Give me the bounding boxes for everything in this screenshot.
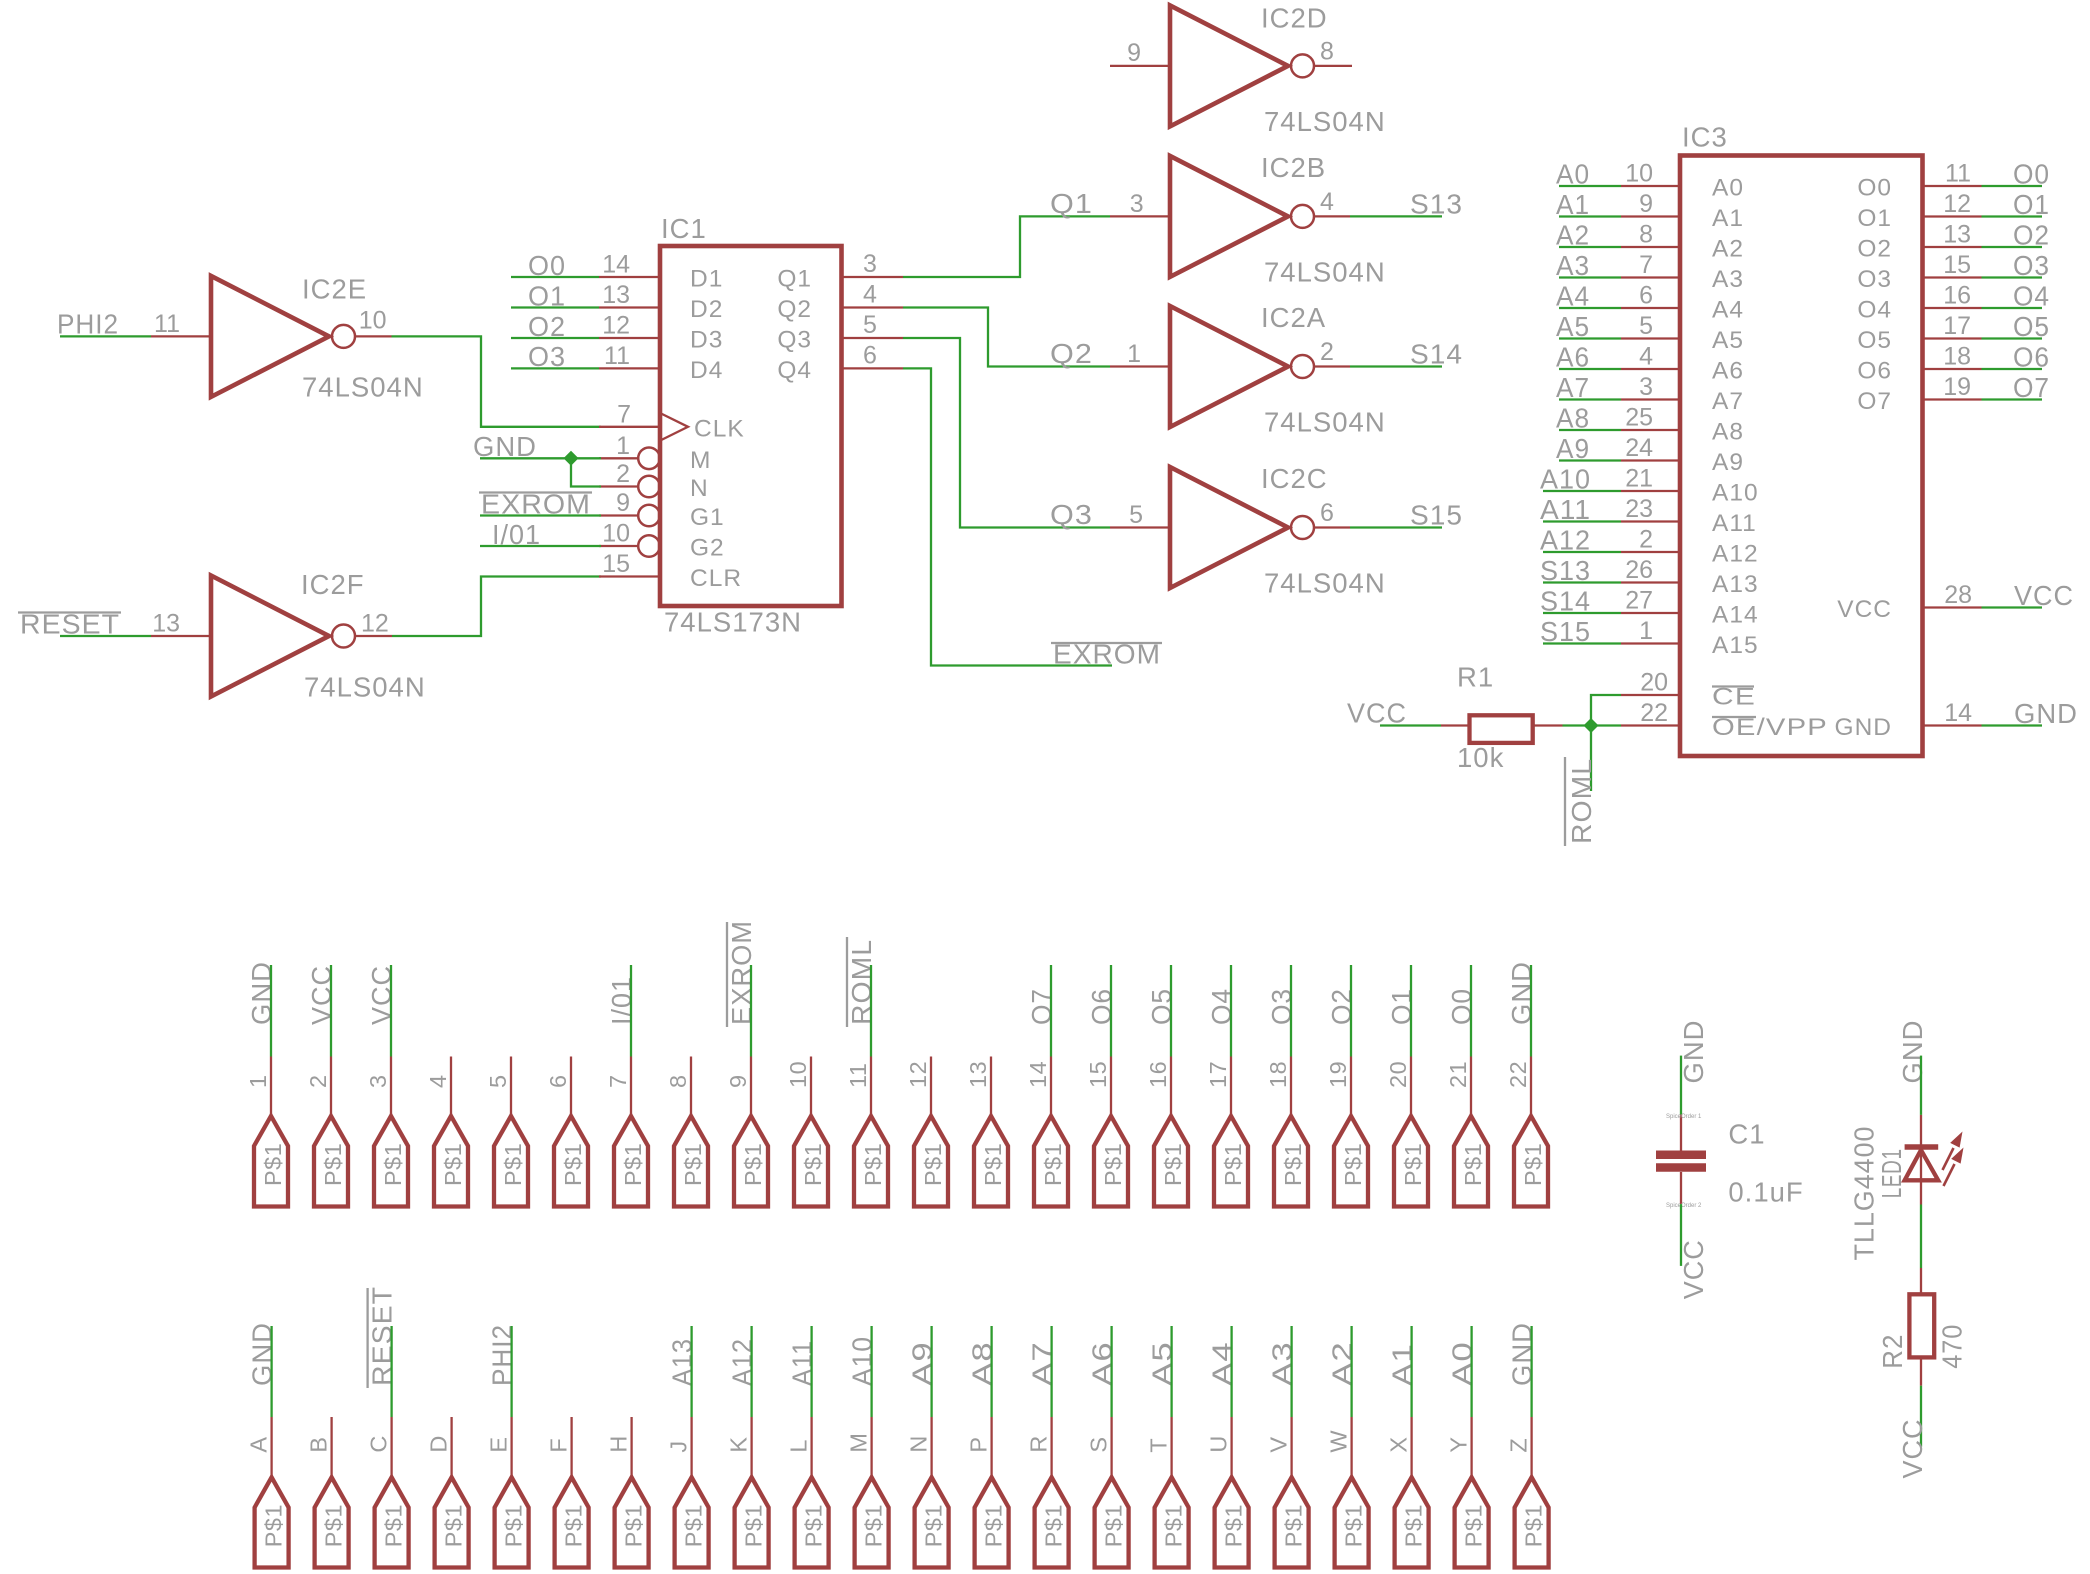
wire to connector pin U [1230, 1326, 1232, 1417]
pin stub connector pin 1 [270, 1057, 272, 1117]
inverter IC2A body [1170, 306, 1288, 427]
svg-text:12: 12 [905, 1061, 931, 1088]
wire IC3 O6 to label [1982, 368, 2043, 370]
svg-text:TLLG4400: TLLG4400 [1849, 1126, 1880, 1261]
svg-text:11: 11 [845, 1063, 871, 1088]
svg-text:VCC: VCC [2014, 580, 2074, 611]
pin stub connector pin 10 [810, 1057, 812, 1117]
connector pad pin 15 [1094, 1116, 1128, 1207]
inverter IC2C body [1170, 467, 1288, 588]
connector pad pin X [1395, 1477, 1429, 1567]
svg-text:F: F [546, 1438, 572, 1453]
pin stub IC3 O0 [1923, 185, 1982, 187]
svg-text:2: 2 [1639, 526, 1653, 554]
inverter IC2F body [211, 576, 329, 697]
wire to connector pin 22 [1530, 965, 1532, 1057]
svg-text:14: 14 [1025, 1061, 1051, 1088]
svg-text:P$1: P$1 [1041, 1504, 1067, 1547]
svg-text:A0: A0 [1712, 175, 1744, 202]
svg-text:P$1: P$1 [860, 1143, 886, 1186]
svg-text:P$1: P$1 [1221, 1504, 1247, 1547]
pin stub IC1 D3 [599, 337, 660, 339]
svg-text:O7: O7 [2013, 372, 2050, 403]
svg-text:3: 3 [1639, 373, 1653, 401]
svg-text:1: 1 [616, 432, 630, 460]
svg-text:G1: G1 [690, 504, 725, 531]
pin stub IC3 O6 [1923, 368, 1982, 370]
pin stub connector pin 11 [870, 1057, 872, 1117]
svg-text:O1: O1 [2013, 189, 2050, 220]
connector pad pin 9 [734, 1116, 768, 1207]
pin stub IC3 OE/VPP [1621, 724, 1680, 726]
svg-text:Q3: Q3 [1050, 499, 1093, 530]
svg-text:VCC: VCC [1347, 697, 1407, 728]
svg-text:2: 2 [305, 1074, 331, 1088]
svg-text:N: N [690, 475, 709, 502]
svg-text:A4: A4 [1712, 297, 1744, 324]
overline for ROML label (connector pin 11) [846, 937, 848, 1027]
pin stub IC3 pin 1 [1621, 642, 1680, 644]
pin stub connector pin D [450, 1417, 452, 1477]
svg-text:15: 15 [602, 550, 630, 578]
svg-text:6: 6 [1639, 282, 1653, 310]
svg-text:Q3: Q3 [777, 327, 812, 354]
inversion bubble IC1 G2 [638, 535, 660, 557]
svg-text:8: 8 [1639, 221, 1653, 249]
svg-text:P$1: P$1 [501, 1504, 527, 1547]
overline for EXROM label (from Q4) [1051, 642, 1162, 644]
svg-text:Q4: Q4 [777, 357, 812, 384]
svg-text:P$1: P$1 [1280, 1143, 1306, 1186]
LED1 wire through symbol [1920, 1150, 1922, 1180]
svg-text:VCC: VCC [1837, 596, 1892, 623]
inversion bubble IC1 G1 [638, 505, 660, 527]
pin stub connector pin 5 [510, 1057, 512, 1117]
svg-text:J: J [666, 1440, 692, 1452]
svg-text:A7: A7 [1712, 388, 1744, 415]
wire to connector pin T [1170, 1326, 1172, 1417]
capacitor C1 plates [1656, 1151, 1706, 1160]
connector pad pin W [1335, 1477, 1369, 1567]
wire IC1 Q2 to IC2A input [903, 308, 1110, 367]
svg-text:U: U [1206, 1435, 1232, 1452]
svg-text:GND: GND [246, 961, 277, 1025]
wire A5 to IC3 pin 5 [1559, 337, 1621, 339]
wire to connector pin N [930, 1326, 932, 1417]
svg-text:24: 24 [1625, 434, 1653, 462]
pin stub connector pin 20 [1410, 1057, 1412, 1117]
pin stub IC3 pin 26 [1621, 581, 1680, 583]
svg-text:22: 22 [1640, 699, 1668, 727]
connector pad pin U [1215, 1477, 1249, 1567]
overline for RESET label [18, 611, 121, 613]
pin stub connector pin 18 [1290, 1057, 1292, 1117]
wire IC3 O1 to label [1982, 215, 2043, 217]
svg-text:22: 22 [1505, 1061, 1531, 1088]
wire A6 to IC3 pin 4 [1559, 368, 1621, 370]
wire LED1 to R2 [1920, 1205, 1922, 1269]
wire I/01 to IC1 pin G2 [480, 545, 601, 547]
connector pad pin 10 [794, 1116, 828, 1207]
connector pad pin 5 [494, 1116, 528, 1207]
svg-text:P$1: P$1 [320, 1143, 346, 1186]
wire to connector pin 11 [870, 965, 872, 1057]
pin stub R1 left [1441, 724, 1470, 726]
svg-text:19: 19 [1943, 373, 1971, 401]
svg-text:A14: A14 [1712, 602, 1759, 629]
svg-text:13: 13 [1943, 221, 1971, 249]
pin stub connector pin K [750, 1417, 752, 1477]
IC IC1 74LS173N body [660, 246, 842, 606]
connector pad pin D [435, 1477, 469, 1567]
pin stub IC1 N [599, 485, 638, 487]
svg-text:16: 16 [1145, 1061, 1171, 1088]
inverter IC2E output bubble [332, 325, 355, 348]
connector pad pin F [555, 1477, 589, 1567]
svg-text:LED1: LED1 [1876, 1148, 1907, 1198]
pin stub connector pin J [690, 1417, 692, 1477]
svg-text:9: 9 [616, 489, 630, 517]
svg-text:N: N [906, 1435, 932, 1452]
svg-text:SpiceOrder 1: SpiceOrder 1 [1666, 1114, 1702, 1120]
pin stub IC3 pin 21 [1621, 490, 1680, 492]
wire A7 to IC3 pin 3 [1559, 398, 1621, 400]
pin stub IC3 pin 25 [1621, 429, 1680, 431]
svg-text:IC2D: IC2D [1261, 3, 1328, 34]
svg-text:10: 10 [785, 1061, 811, 1088]
wire IC2A output to S14 [1350, 365, 1442, 367]
pin stub connector pin 19 [1350, 1057, 1352, 1117]
wire to connector pin 21 [1470, 965, 1472, 1057]
pin stub LED1 bottom [1920, 1180, 1922, 1204]
svg-text:18: 18 [1943, 343, 1971, 371]
svg-text:A10: A10 [847, 1336, 878, 1386]
svg-text:14: 14 [1944, 699, 1972, 727]
wire S13 to IC3 pin 26 [1543, 581, 1621, 583]
wire to connector pin P [990, 1326, 992, 1417]
svg-text:Q1: Q1 [777, 266, 812, 293]
pin stub connector pin 13 [990, 1057, 992, 1117]
svg-text:74LS04N: 74LS04N [304, 672, 426, 703]
wire to connector pin J [690, 1326, 692, 1417]
inverter IC2B output bubble [1291, 205, 1314, 228]
wire R1 to junction [1563, 724, 1592, 726]
wire O0 to IC1 D1 [511, 276, 599, 278]
svg-text:26: 26 [1625, 556, 1653, 584]
svg-text:PHI2: PHI2 [57, 309, 119, 340]
connector pad pin N [915, 1477, 949, 1567]
wire IC3 VCC to label [1982, 606, 2043, 608]
wire R2 to VCC [1920, 1386, 1922, 1447]
wire O3 to IC1 D4 [511, 367, 599, 369]
svg-text:P$1: P$1 [1460, 1143, 1486, 1186]
svg-text:O6: O6 [1086, 988, 1117, 1025]
svg-text:10: 10 [359, 306, 387, 334]
svg-text:A1: A1 [1712, 205, 1744, 232]
pin stub IC1 G1 [599, 514, 638, 516]
svg-text:O2: O2 [1857, 236, 1892, 263]
svg-text:P$1: P$1 [741, 1504, 767, 1547]
svg-text:14: 14 [602, 251, 630, 279]
svg-text:P$1: P$1 [1040, 1143, 1066, 1186]
svg-text:I/01: I/01 [606, 976, 637, 1025]
svg-text:8: 8 [665, 1074, 691, 1088]
connector pad pin 14 [1034, 1116, 1068, 1207]
svg-text:O5: O5 [1857, 327, 1892, 354]
svg-text:O3: O3 [1266, 988, 1297, 1025]
svg-text:A12: A12 [1712, 541, 1759, 568]
pin stub IC1 D4 [599, 367, 660, 369]
pin stub connector pin C [390, 1417, 392, 1477]
pin stub connector pin 12 [930, 1057, 932, 1117]
svg-text:A2: A2 [1327, 1341, 1358, 1386]
svg-text:O2: O2 [1326, 988, 1357, 1025]
svg-text:H: H [606, 1435, 632, 1452]
svg-text:5: 5 [1639, 312, 1653, 340]
svg-text:2: 2 [616, 460, 630, 488]
svg-text:S: S [1086, 1436, 1112, 1452]
wire to connector pin 15 [1110, 965, 1112, 1057]
overline for OE pin name [1712, 716, 1756, 718]
wire IC1 Q3 to IC2C input [903, 338, 1110, 528]
pin stub IC3 pin 10 [1621, 185, 1680, 187]
pin stub IC1 CLK [599, 426, 660, 428]
svg-text:1: 1 [245, 1074, 271, 1088]
svg-text:P$1: P$1 [380, 1143, 406, 1186]
wire RESET to IC2F input [60, 635, 151, 637]
connector pad pin 8 [674, 1116, 708, 1207]
svg-text:12: 12 [602, 312, 630, 340]
svg-text:P$1: P$1 [980, 1143, 1006, 1186]
svg-text:B: B [306, 1436, 332, 1452]
svg-text:P$1: P$1 [441, 1504, 467, 1547]
svg-text:21: 21 [1445, 1061, 1471, 1088]
connector pad pin A [255, 1477, 289, 1567]
connector pad pin 18 [1274, 1116, 1308, 1207]
inverter IC2C output bubble [1291, 516, 1314, 539]
svg-text:7: 7 [1639, 251, 1653, 279]
svg-text:A6: A6 [1087, 1341, 1118, 1386]
LED1 triangle [1905, 1150, 1939, 1180]
LED1 cathode bar [1905, 1144, 1939, 1150]
svg-text:S14: S14 [1410, 339, 1463, 370]
pin stub IC3 GND [1923, 724, 1982, 726]
wire junction down to ROML label [1590, 726, 1592, 792]
wire A9 to IC3 pin 24 [1559, 459, 1621, 461]
wire A11 to IC3 pin 23 [1543, 520, 1621, 522]
inverter IC2B body [1170, 156, 1288, 277]
pin stub connector pin N [930, 1417, 932, 1477]
wire to connector pin 14 [1050, 965, 1052, 1057]
wire IC2E output to IC1 CLK pin 7 [392, 336, 602, 426]
pin stub IC3 VCC [1923, 606, 1982, 608]
svg-text:P$1: P$1 [680, 1143, 706, 1186]
pin stub connector pin 15 [1110, 1057, 1112, 1117]
svg-text:P$1: P$1 [681, 1504, 707, 1547]
wire junction up to IC3 CE [1591, 695, 1621, 726]
svg-text:P$1: P$1 [560, 1143, 586, 1186]
svg-text:16: 16 [1943, 282, 1971, 310]
svg-text:S13: S13 [1410, 188, 1463, 219]
svg-text:10: 10 [1625, 160, 1653, 188]
wire to connector pin Z [1530, 1326, 1532, 1417]
connector pad pin 7 [614, 1116, 648, 1207]
svg-text:4: 4 [863, 281, 877, 309]
svg-text:P$1: P$1 [920, 1143, 946, 1186]
wire junction to IC3 OE/VPP [1591, 724, 1621, 726]
wire to connector pin 20 [1410, 965, 1412, 1057]
svg-text:P$1: P$1 [1100, 1143, 1126, 1186]
svg-text:A11: A11 [787, 1340, 818, 1386]
svg-text:28: 28 [1944, 581, 1972, 609]
svg-text:SpiceOrder 2: SpiceOrder 2 [1666, 1203, 1702, 1209]
pin stub connector pin W [1350, 1417, 1352, 1477]
resistor R2 body [1909, 1294, 1934, 1357]
pin stub IC3 pin 3 [1621, 398, 1680, 400]
wire A12 to IC3 pin 2 [1543, 551, 1621, 553]
pin stub connector pin A [270, 1417, 272, 1477]
svg-text:O0: O0 [1857, 175, 1892, 202]
svg-text:P$1: P$1 [1461, 1504, 1487, 1547]
wire to connector pin W [1350, 1326, 1352, 1417]
wire GND to C1 [1680, 1056, 1682, 1115]
wire A1 to IC3 pin 9 [1559, 215, 1621, 217]
svg-text:74LS04N: 74LS04N [1264, 407, 1386, 438]
wire to connector pin C [390, 1326, 392, 1417]
svg-text:P: P [966, 1436, 992, 1452]
svg-text:GND: GND [1678, 1020, 1709, 1084]
svg-text:C: C [366, 1435, 392, 1452]
svg-text:IC2F: IC2F [301, 569, 365, 600]
svg-text:6: 6 [545, 1074, 571, 1088]
svg-text:15: 15 [1085, 1061, 1111, 1088]
svg-text:10: 10 [602, 520, 630, 548]
connector pad pin 11 [854, 1116, 888, 1207]
wire IC3 GND to label [1982, 724, 2043, 726]
overline for EXROM label (IC1 G1) [479, 491, 592, 493]
svg-text:CLK: CLK [694, 415, 745, 442]
pin stub connector pin 6 [570, 1057, 572, 1117]
wire S14 to IC3 pin 27 [1543, 612, 1621, 614]
pin stub connector pin 16 [1170, 1057, 1172, 1117]
svg-text:Q2: Q2 [1050, 338, 1093, 369]
wire to connector pin K [750, 1326, 752, 1417]
svg-text:O4: O4 [1206, 988, 1237, 1025]
connector pad pin H [615, 1477, 649, 1567]
svg-text:12: 12 [1943, 190, 1971, 218]
pin stub connector pin S [1110, 1417, 1112, 1477]
svg-text:8: 8 [1320, 37, 1334, 65]
connector pad pin S [1095, 1477, 1129, 1567]
pin stub connector pin V [1290, 1417, 1292, 1477]
wire VCC to R1 [1380, 724, 1441, 726]
wire A2 to IC3 pin 8 [1559, 246, 1621, 248]
wire to connector pin V [1290, 1326, 1292, 1417]
svg-text:P$1: P$1 [1161, 1504, 1187, 1547]
svg-text:20: 20 [1385, 1061, 1411, 1088]
svg-text:P$1: P$1 [1281, 1504, 1307, 1547]
pin stub IC3 pin 6 [1621, 307, 1680, 309]
pin stub IC2F output [355, 635, 393, 637]
connector pad pin J [675, 1477, 709, 1567]
svg-text:A9: A9 [907, 1341, 938, 1386]
svg-text:5: 5 [863, 311, 877, 339]
wire to connector pin 2 [330, 965, 332, 1057]
svg-text:P$1: P$1 [981, 1504, 1007, 1547]
connector pad pin Z [1515, 1477, 1549, 1567]
wire PHI2 to IC2E input [60, 335, 151, 337]
pin stub IC3 pin 23 [1621, 520, 1680, 522]
pin stub IC1 M [599, 457, 638, 459]
svg-text:GND: GND [2014, 698, 2078, 729]
pin stub IC3 O7 [1923, 398, 1982, 400]
svg-text:A12: A12 [727, 1338, 758, 1386]
pin stub IC1 CLR [599, 575, 660, 577]
pin stub R1 right [1533, 724, 1563, 726]
wire IC3 O7 to label [1982, 398, 2043, 400]
svg-text:23: 23 [1625, 495, 1653, 523]
svg-text:3: 3 [1130, 190, 1144, 218]
connector pad pin 13 [974, 1116, 1008, 1207]
svg-text:P$1: P$1 [620, 1143, 646, 1186]
svg-text:13: 13 [152, 610, 180, 638]
svg-text:C1: C1 [1728, 1119, 1765, 1150]
svg-text:GND: GND [1506, 961, 1537, 1025]
pin stub IC2E output [355, 335, 392, 337]
svg-text:74LS04N: 74LS04N [1264, 256, 1386, 287]
pin stub IC3 pin 27 [1621, 612, 1680, 614]
pin stub IC3 CE [1621, 694, 1680, 696]
pin stub IC3 pin 2 [1621, 551, 1680, 553]
svg-text:A: A [246, 1436, 272, 1452]
svg-text:A5: A5 [1712, 327, 1744, 354]
connector pad pin 4 [434, 1116, 468, 1207]
pin stub C1 top [1680, 1115, 1682, 1151]
svg-text:P$1: P$1 [1400, 1143, 1426, 1186]
svg-text:13: 13 [965, 1061, 991, 1088]
svg-text:12: 12 [361, 610, 389, 638]
svg-text:EXROM: EXROM [726, 920, 757, 1025]
svg-text:P$1: P$1 [621, 1504, 647, 1547]
svg-text:P$1: P$1 [861, 1504, 887, 1547]
wire IC1 Q1 to IC2B input [903, 216, 1110, 277]
svg-text:7: 7 [605, 1074, 631, 1088]
connector pad pin L [795, 1477, 829, 1567]
svg-text:M: M [846, 1433, 872, 1453]
wire to connector pin 1 [270, 965, 272, 1057]
svg-text:IC2B: IC2B [1261, 152, 1326, 183]
svg-text:GND: GND [1835, 714, 1892, 741]
pin stub connector pin 7 [630, 1057, 632, 1117]
wire IC3 O5 to label [1982, 337, 2043, 339]
svg-text:Y: Y [1446, 1436, 1472, 1452]
svg-text:K: K [726, 1436, 752, 1452]
svg-text:P$1: P$1 [1101, 1504, 1127, 1547]
pin stub IC2A output [1314, 365, 1351, 367]
connector pad pin 21 [1454, 1116, 1488, 1207]
inverter IC2E body [211, 276, 329, 397]
LED1 emission arrow 2 [1944, 1164, 1955, 1186]
wire to connector pin 7 [630, 965, 632, 1057]
svg-text:M: M [690, 447, 711, 474]
wire O2 to IC1 D3 [511, 337, 599, 339]
inversion bubble IC1 M [638, 448, 660, 470]
svg-text:O2: O2 [2013, 220, 2050, 251]
wire A3 to IC3 pin 7 [1559, 276, 1621, 278]
wire to connector pin E [510, 1326, 512, 1417]
svg-text:O7: O7 [1026, 988, 1057, 1025]
svg-text:A8: A8 [1712, 419, 1744, 446]
